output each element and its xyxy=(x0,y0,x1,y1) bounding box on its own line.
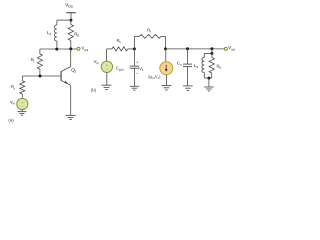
wire top node to coil top xyxy=(57,19,71,21)
svg-text:f: f xyxy=(150,30,151,34)
resistor R_d (b) xyxy=(211,53,213,57)
base wire (a) xyxy=(22,75,60,77)
feedback resistor R_f (a) xyxy=(39,49,41,54)
feedback resistor R_f (b) bridge xyxy=(134,36,136,49)
svg-text:in: in xyxy=(96,61,99,65)
wire coil bottom to output node wire xyxy=(56,41,58,49)
svg-text:in: in xyxy=(13,101,16,105)
bottom rail of L||R xyxy=(204,77,212,79)
svg-text:(b): (b) xyxy=(91,87,97,92)
power V_DD bar xyxy=(66,12,76,14)
ground (V_in b) xyxy=(101,84,111,86)
source resistor R_s (a) xyxy=(21,76,23,81)
ground (source a) xyxy=(18,111,27,113)
node under R_d (collector) xyxy=(69,47,72,50)
capacitor C_o branch xyxy=(187,49,189,64)
ground (C_o) xyxy=(183,85,193,87)
ground (emitter) xyxy=(66,114,76,116)
node C_o tap xyxy=(186,47,189,50)
resistor R_s (b) xyxy=(112,47,128,51)
svg-text:1: 1 xyxy=(74,70,76,74)
capacitor C_g,in branch xyxy=(133,49,135,66)
source V_in (b) xyxy=(106,49,108,61)
svg-text:DD: DD xyxy=(68,5,73,9)
ground (L||R) xyxy=(204,86,214,88)
node top tap xyxy=(210,47,213,50)
node: VDD top junction xyxy=(69,19,72,22)
source V_in (a) xyxy=(17,98,28,109)
inductor L_d (circuit a) xyxy=(55,25,57,41)
svg-text:(g: (g xyxy=(148,74,152,79)
svg-text:out: out xyxy=(84,48,88,52)
svg-text:(a): (a) xyxy=(8,117,14,122)
inductor L_d (b) xyxy=(203,53,205,57)
node output side of R_f xyxy=(164,47,167,50)
terminal V_out (b) xyxy=(224,47,227,50)
wire V_in corner to R_s (b) xyxy=(107,48,112,50)
ground (C_g,in) xyxy=(130,85,140,87)
node under coil xyxy=(55,48,58,51)
node v1 (input node) xyxy=(133,47,136,50)
svg-text:g,in: g,in xyxy=(119,67,124,71)
wire R_s to node v1 xyxy=(128,48,135,50)
ground (current source) xyxy=(161,85,171,87)
node lower tap xyxy=(210,52,213,55)
svg-text:d: d xyxy=(77,33,79,37)
terminal V_out (a) xyxy=(77,47,80,50)
wire VDD bar to top node xyxy=(70,13,72,20)
wire collector/output node horizontal xyxy=(40,48,77,50)
svg-text:d: d xyxy=(50,32,52,36)
transistor Q1 xyxy=(61,49,71,116)
resistor R_d (circuit a) xyxy=(70,20,72,24)
svg-text:out: out xyxy=(231,47,235,51)
main rail right section xyxy=(166,48,225,50)
wire source to ground xyxy=(21,110,23,112)
dependent current source g_m V_1 xyxy=(165,49,167,62)
node base/feedback junction xyxy=(39,75,42,78)
node ground tap xyxy=(207,77,210,80)
